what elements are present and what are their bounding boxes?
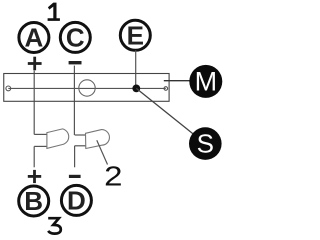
connector lug right: body (86, 130, 110, 149)
wire from lug left down to plus (33, 146, 35, 167)
connector lug left: body (47, 129, 69, 149)
pointer line to label 2 (97, 140, 108, 164)
wire from A through bar (33, 71, 35, 135)
wire from E to junction (135, 50, 137, 88)
svg-text:2: 2 (104, 161, 122, 192)
connector lug right: wire stubs (75, 135, 86, 146)
meter bar body (4, 74, 169, 102)
terminal B (circled) (19, 186, 49, 216)
svg-text:D: D (67, 186, 86, 216)
terminal C (circled) (60, 22, 90, 52)
terminal D (circled) (61, 185, 91, 215)
svg-text:A: A (25, 23, 44, 53)
svg-text:B: B (24, 186, 43, 216)
lead line to M (164, 80, 190, 82)
minus sign bottom (69, 175, 81, 178)
left pin (6, 86, 11, 91)
wire from lug right down to minus (74, 146, 76, 168)
label 3 (48, 218, 61, 233)
svg-text:C: C (66, 23, 85, 53)
lead line to S (136, 88, 193, 133)
svg-text:S: S (197, 129, 214, 159)
wire from C through bar (73, 66, 75, 135)
svg-text:E: E (127, 20, 144, 50)
M badge (189, 65, 222, 98)
junction dot (132, 85, 140, 93)
window circle in bar (79, 80, 95, 96)
terminal E (circled) (120, 20, 150, 50)
minus sign top (69, 61, 82, 64)
S badge (189, 127, 222, 160)
bar center line (8, 87, 166, 89)
label 1 (48, 3, 60, 21)
connector lug left: wire stubs (34, 134, 47, 146)
right pin (164, 87, 168, 91)
terminal A (circled) (19, 23, 49, 53)
plus sign bottom (28, 170, 41, 183)
plus sign top (28, 57, 42, 71)
svg-text:M: M (195, 67, 218, 97)
